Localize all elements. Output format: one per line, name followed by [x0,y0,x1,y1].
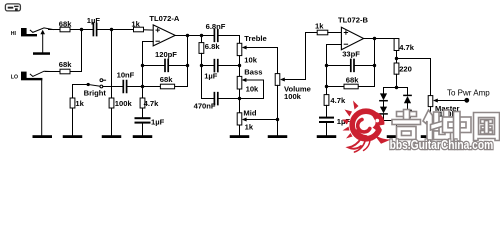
wire bass bottom to mid node [239,89,241,99]
diode D1 (down) [380,93,387,100]
svg-text:4.7k: 4.7k [399,43,415,52]
capacitor 33pF (feedback B) [327,50,375,72]
potentiometer Master 100k [428,96,464,119]
wire 1k up to bright switch [73,85,89,99]
resistor 4.7k (output series) [394,39,415,53]
wire 1k to op-amp B [328,32,342,34]
svg-text:TL072-B: TL072-B [338,16,368,25]
ground (LO jack) [33,135,53,138]
capacitor 6.8nF (treble) [206,22,226,41]
capacitor 10nF (bright) [117,71,135,93]
svg-text:120pF: 120pF [155,50,177,59]
node output terminal [464,98,469,103]
diode D3 (up) [404,95,411,103]
resistor 1k (op-amp A input) [131,19,143,32]
node B junction [110,28,113,31]
wire output down feedback [187,36,189,87]
ground (1uF A) [133,135,153,138]
node junction feedback/10nF [141,85,144,88]
wire bright switch to 10nF [103,86,124,88]
ground (HI jack) [33,52,50,55]
wire output to 6.8k node [200,34,203,37]
svg-text:6.8k: 6.8k [205,42,221,51]
wire op-amp B minus input [327,45,342,95]
wire op-amp A output [175,35,214,37]
svg-text:bbs.GuitarChina.com: bbs.GuitarChina.com [390,138,494,152]
svg-text:1k: 1k [315,22,324,31]
node junction feedback B [325,85,328,88]
watermark character guo [474,113,500,141]
resistor 1k (bright pulldown) [70,98,85,108]
diode D2 (down) [380,101,387,114]
resistor 4.7k (op-amp B gain) [324,95,346,106]
wire node to mid pot [239,99,241,113]
capacitor 120pF (feedback) [143,50,188,71]
svg-text:68k: 68k [346,76,359,85]
capacitor 1uF (op-amp B gain) [319,117,350,126]
wire 6.8nF to treble pot top [218,36,240,44]
ground (master) [421,135,441,138]
svg-text:100k: 100k [115,99,133,108]
svg-text:1µF: 1µF [204,71,218,80]
svg-text:1µF: 1µF [151,118,165,127]
ground (volume) [268,135,288,138]
site logo top-left [5,4,20,11]
node junction 6.8k/1uF [200,64,203,67]
node junction 470nF/mid [238,97,241,100]
wire 1k to ground [72,108,74,135]
svg-text:Mid: Mid [243,109,256,118]
wire 1k to op-amp A [144,29,154,31]
wire node B down to 100k [111,30,113,99]
capacitor 470nF (mid) [194,93,240,111]
resistor 68k (HI input) [59,19,72,32]
wire 4.7k to cap B [326,105,328,116]
watermark character ji [392,110,421,140]
wire op-amp B output [364,38,397,40]
wire 68k to node A [70,29,93,31]
svg-text:Treble: Treble [244,34,266,43]
wire HI input [49,29,61,31]
resistor 220 (clipper series) [394,63,412,74]
jack J1 shorting contact arrow [40,30,45,53]
resistor 68k (op-amp A feedback) [143,75,188,89]
wire output down feedback B [374,39,376,87]
watermark character ta [423,110,451,140]
wire cap to ground [142,124,144,136]
svg-text:TL072-A: TL072-A [149,14,179,23]
op-amp U1A TL072-A [149,14,179,46]
node junction volume/mid wiper [276,118,279,121]
node A junction [80,28,83,31]
capacitor 1uF (bass) [202,60,240,81]
resistor 1k (op-amp B input) [315,22,328,35]
resistor 68k (LO input) [59,60,72,74]
potentiometer Bass 10k [237,67,263,98]
node junction 4.7k/220/master [395,57,398,60]
node junction 120pF left [141,64,144,67]
svg-text:4.7k: 4.7k [330,96,346,105]
resistor 68k (op-amp B feedback) [327,76,375,89]
ground (1k) [63,135,83,138]
svg-text:Bass: Bass [244,67,262,76]
potentiometer Mid 1k [237,109,277,132]
node junction 1uF/bass [238,64,241,67]
ground (diodes) [387,135,407,138]
wire 220 to diodes [396,74,398,87]
wire mid pot to ground [239,125,241,135]
wire 6.8k down to bass node [201,53,203,98]
node junction diodes top [395,86,398,89]
ground (100k) [102,135,122,138]
svg-text:4.7k: 4.7k [144,99,160,108]
wire LO input [45,71,60,73]
ground (mid pot) [230,135,250,138]
svg-text:1k: 1k [75,99,84,108]
wire master pot to ground [430,107,432,136]
wire volume bottom to ground node [277,85,279,135]
wire 100k to ground [111,108,113,135]
capacitor 1uF (input coupling) [87,16,101,35]
svg-text:68k: 68k [59,19,72,28]
diode D4 (up) [404,103,411,118]
svg-text:1k: 1k [131,19,140,28]
wire diode bus bottom [384,114,408,135]
node op-amp B output junction [373,37,376,40]
switch Bright [84,79,107,98]
wire diode bus top [384,88,408,96]
svg-text:LO: LO [11,75,18,81]
wire 68k LO up to node A [70,30,82,72]
ground (1uF B) [317,135,337,138]
svg-text:1k: 1k [245,123,254,132]
watermark url text [390,138,494,152]
node junction 33pF left [325,64,328,67]
op-amp U1B TL072-B [338,16,368,50]
resistor 4.7k (op-amp A gain) [140,98,159,108]
wire op-amp A minus input [143,42,154,99]
wire treble bottom to bass top [239,56,241,77]
wire node to master pot [397,59,431,96]
node op-amp A output junction [186,34,189,37]
wire 4.7k to cap [142,108,144,117]
svg-text:To Pwr Amp: To Pwr Amp [447,89,490,98]
wire 10nF to feedback node [127,86,143,88]
potentiometer Treble 10k [237,34,277,73]
svg-text:470nF: 470nF [194,102,216,111]
svg-text:33pF: 33pF [342,50,360,59]
jack J2 LO input [21,71,50,80]
svg-text:220: 220 [399,64,412,73]
svg-text:100k: 100k [284,92,302,101]
resistor 6.8k (slope) [199,36,220,54]
wire LO jack sleeve to ground [41,80,43,135]
svg-text:Bright: Bright [84,88,107,97]
svg-text:68k: 68k [59,60,72,69]
watermark character zhong [443,112,472,142]
jack J1 HI input [21,28,53,37]
svg-text:HI: HI [11,31,17,37]
svg-text:10k: 10k [246,84,259,93]
svg-text:1µF: 1µF [337,117,351,126]
svg-text:1µF: 1µF [87,16,101,25]
watermark dragon emblem [342,101,392,153]
potentiometer Volume 100k [275,33,317,102]
node junction 33pF right [373,64,376,67]
capacitor 1uF (op-amp A gain) [135,117,165,126]
resistor 100k (bias) [109,98,132,108]
svg-text:10k: 10k [244,56,257,65]
svg-text:6.8nF: 6.8nF [206,22,226,31]
svg-text:68k: 68k [160,75,173,84]
wire cap to node B [97,29,134,31]
node junction 120pF right [186,64,189,67]
wire cap B to ground [326,123,328,135]
svg-text:10nF: 10nF [117,71,135,80]
